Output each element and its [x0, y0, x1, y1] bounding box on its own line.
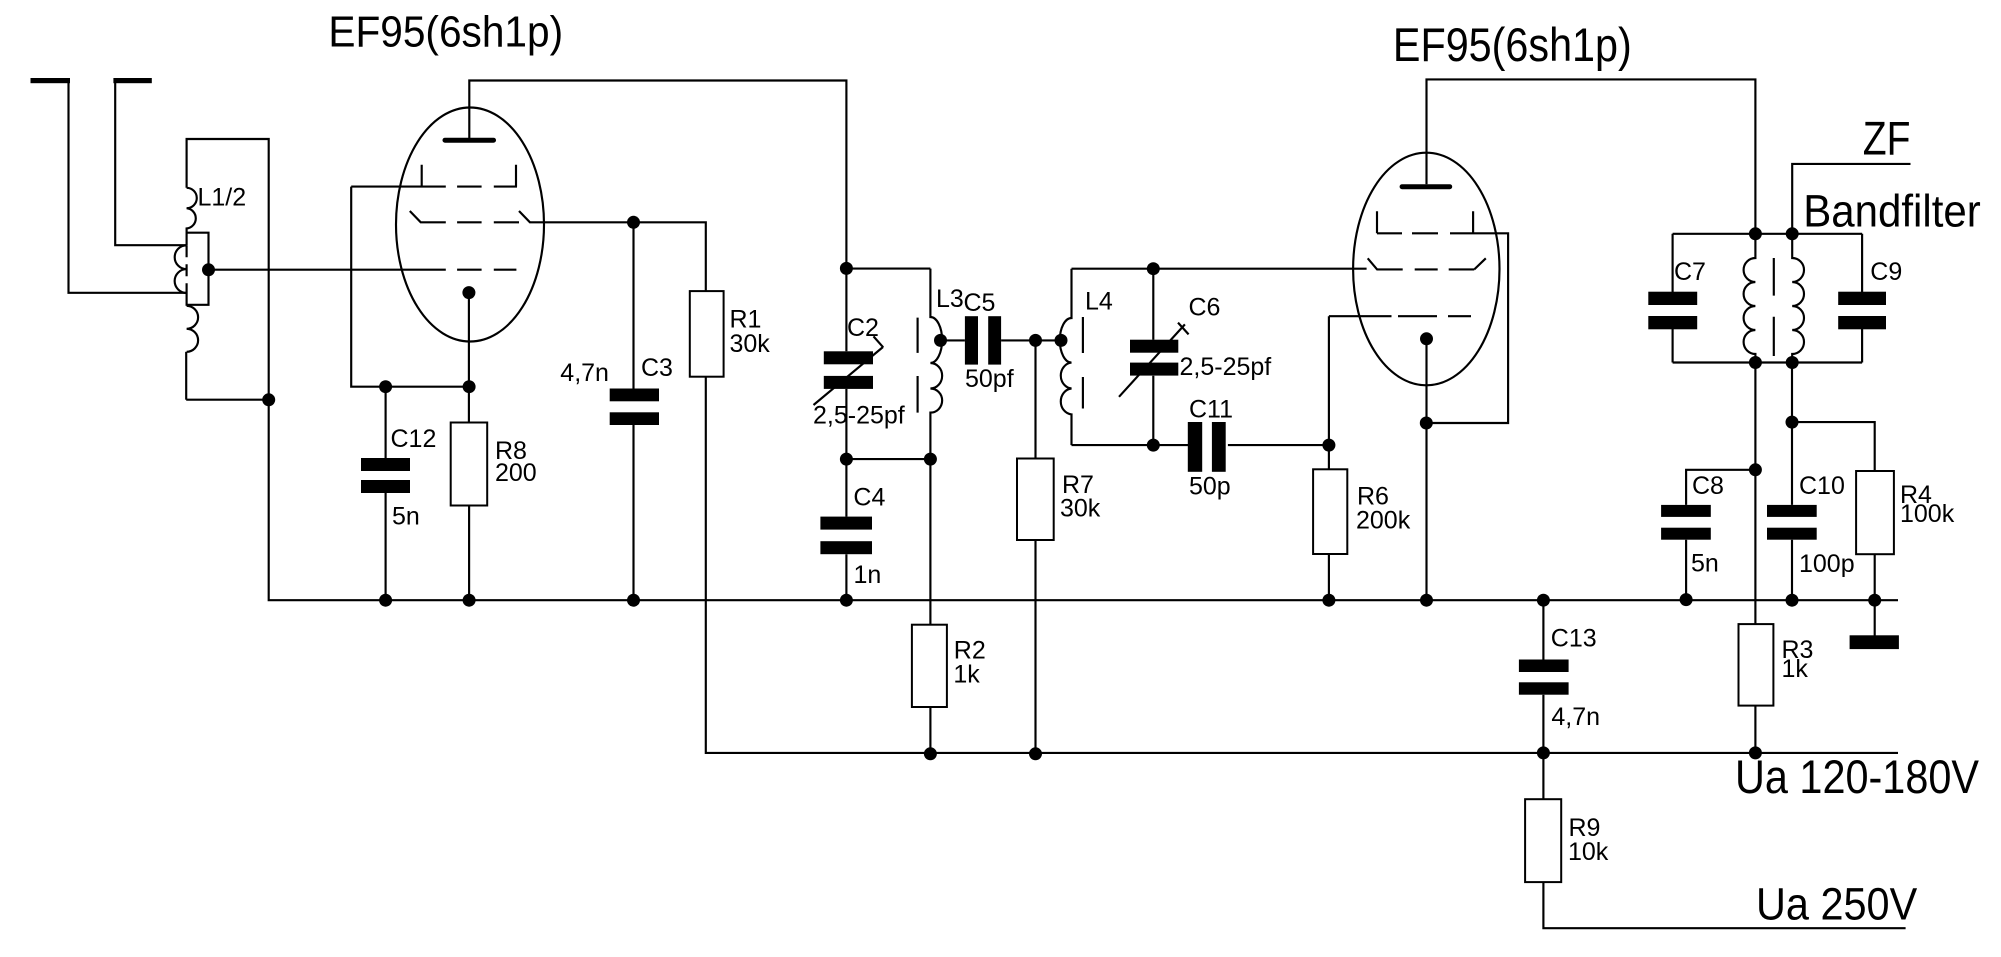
svg-text:C10: C10	[1799, 472, 1845, 500]
svg-text:4,7n: 4,7n	[1551, 703, 1600, 731]
svg-text:1n: 1n	[854, 561, 882, 589]
svg-text:L1/2: L1/2	[198, 184, 247, 212]
svg-text:50p: 50p	[1189, 473, 1231, 501]
svg-text:100p: 100p	[1799, 550, 1855, 578]
svg-text:C6: C6	[1189, 294, 1221, 322]
svg-text:L3: L3	[936, 285, 964, 313]
svg-text:50pf: 50pf	[965, 365, 1014, 393]
svg-text:30k: 30k	[1060, 495, 1101, 523]
svg-text:Bandfilter: Bandfilter	[1803, 186, 1981, 237]
svg-text:EF95(6sh1p): EF95(6sh1p)	[1393, 18, 1632, 71]
svg-text:5n: 5n	[392, 503, 420, 531]
svg-text:1k: 1k	[953, 661, 980, 689]
svg-text:4,7n: 4,7n	[560, 359, 609, 387]
svg-text:C5: C5	[964, 289, 996, 317]
svg-text:100k: 100k	[1900, 500, 1955, 528]
svg-text:C9: C9	[1870, 258, 1902, 286]
svg-text:1k: 1k	[1782, 655, 1809, 683]
svg-text:10k: 10k	[1568, 838, 1609, 866]
svg-text:C8: C8	[1692, 472, 1724, 500]
svg-text:Ua 120-180V: Ua 120-180V	[1735, 750, 1980, 803]
svg-text:C3: C3	[641, 354, 673, 382]
svg-text:2,5-25pf: 2,5-25pf	[1180, 353, 1272, 381]
svg-text:C4: C4	[853, 484, 885, 512]
svg-text:30k: 30k	[730, 330, 771, 358]
svg-text:C12: C12	[391, 425, 437, 453]
svg-text:ZF: ZF	[1863, 112, 1911, 165]
svg-text:L4: L4	[1085, 288, 1113, 316]
svg-text:Ua 250V: Ua 250V	[1756, 879, 1917, 930]
svg-text:C13: C13	[1551, 625, 1597, 653]
svg-text:C2: C2	[847, 314, 879, 342]
svg-text:5n: 5n	[1691, 550, 1719, 578]
svg-text:C11: C11	[1189, 396, 1233, 424]
svg-text:2,5-25pf: 2,5-25pf	[813, 402, 905, 430]
svg-text:EF95(6sh1p): EF95(6sh1p)	[328, 8, 563, 57]
svg-text:200k: 200k	[1356, 507, 1411, 535]
svg-text:200: 200	[495, 459, 537, 487]
svg-text:C7: C7	[1674, 258, 1706, 286]
